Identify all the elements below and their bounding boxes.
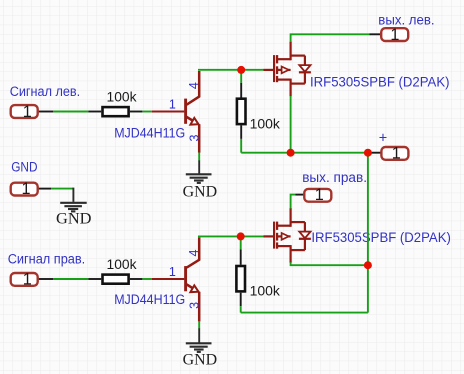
wire port to R <box>53 111 88 113</box>
svg-text:1: 1 <box>392 144 401 162</box>
wire R4 to bottom rail <box>240 306 242 312</box>
junction dot drain / + rail <box>287 149 295 157</box>
svg-text:1: 1 <box>390 26 399 44</box>
resistor R1 100k horizontal <box>88 107 142 116</box>
svg-text:1: 1 <box>23 103 32 121</box>
wire collector rail to gate node bottom <box>198 235 241 237</box>
svg-text:1: 1 <box>169 97 176 111</box>
junction dot gate node top <box>237 66 245 74</box>
wire R3 to Q2 base <box>142 278 151 280</box>
svg-text:Сигнал лев.: Сигнал лев. <box>10 84 81 100</box>
wire port to ground <box>51 188 73 190</box>
transistor Q2 MJD44H11G <box>152 238 199 322</box>
svg-text:IRF5305SPBF (D2PAK): IRF5305SPBF (D2PAK) <box>311 230 451 246</box>
svg-text:3: 3 <box>187 134 201 141</box>
Q1 emitter wire to ground <box>198 152 200 160</box>
svg-text:GND: GND <box>183 351 218 368</box>
junction dot drain / right vertical <box>364 261 372 269</box>
ground symbol left <box>60 189 86 212</box>
svg-text:1: 1 <box>21 180 30 198</box>
port 1 GND <box>11 180 52 198</box>
svg-text:IRF5305SPBF (D2PAK): IRF5305SPBF (D2PAK) <box>310 75 450 91</box>
wire port to R3 <box>53 278 88 280</box>
svg-text:100k: 100k <box>107 90 137 105</box>
port 1 Сигнал лев. <box>11 103 53 121</box>
Q2 emitter wire to ground <box>198 321 200 328</box>
ground under Q1 <box>186 160 212 183</box>
svg-text:4: 4 <box>187 82 201 89</box>
svg-text:вых. лев.: вых. лев. <box>378 12 434 28</box>
+ rail horizontal <box>241 152 368 154</box>
wire U2 drain to right vertical <box>291 262 368 265</box>
port 1 Сигнал прав. <box>11 271 53 289</box>
svg-text:Сигнал прав.: Сигнал прав. <box>8 251 86 267</box>
wire R2 to + rail <box>240 139 242 153</box>
svg-text:+: + <box>379 131 387 147</box>
wire gate node down to R4 <box>240 236 242 249</box>
resistor R3 100k horizontal <box>88 275 142 284</box>
wire U1 source up to output <box>291 34 370 42</box>
svg-text:1: 1 <box>169 265 176 279</box>
junction dot gate node bottom <box>237 232 245 240</box>
svg-text:MJD44H11G: MJD44H11G <box>114 292 185 308</box>
junction dot + rail / right vertical <box>364 149 372 157</box>
resistor R4 100k vertical <box>236 249 245 306</box>
port 1 вых. прав. <box>296 186 332 204</box>
wire U1 drain down to + rail <box>290 96 292 153</box>
svg-text:GND: GND <box>56 210 92 227</box>
transistor Q1 MJD44H11G <box>152 71 199 153</box>
wire U2 source up to output <box>291 195 296 209</box>
svg-text:1: 1 <box>315 186 324 204</box>
svg-text:MJD44H11G: MJD44H11G <box>114 125 185 141</box>
svg-text:GND: GND <box>11 160 37 176</box>
svg-text:3: 3 <box>187 302 201 309</box>
wire gate node to U1 gate <box>241 69 263 71</box>
resistor R2 100k vertical <box>237 83 246 139</box>
wire gate node to U2 gate <box>241 235 264 237</box>
wire collector rail to gate node <box>198 69 241 71</box>
MOSFET U1 IRF5305SPBF <box>264 42 311 97</box>
bottom rail wire <box>241 312 368 314</box>
MOSFET U2 IRF5305SPBF <box>264 208 311 263</box>
right vertical wire <box>367 153 369 313</box>
svg-text:100k: 100k <box>250 284 280 299</box>
ground under Q2 <box>186 328 212 352</box>
svg-text:100k: 100k <box>250 116 280 131</box>
svg-text:GND: GND <box>183 184 218 201</box>
svg-text:вых. прав.: вых. прав. <box>302 170 367 186</box>
svg-text:100k: 100k <box>107 257 137 272</box>
wire R to Q1 base <box>142 111 151 113</box>
svg-text:1: 1 <box>23 271 32 289</box>
port 1 вых. лев. <box>370 26 409 44</box>
wire gate node down to R2 <box>240 70 242 83</box>
svg-text:4: 4 <box>187 249 201 256</box>
port 1 + <box>368 144 409 162</box>
